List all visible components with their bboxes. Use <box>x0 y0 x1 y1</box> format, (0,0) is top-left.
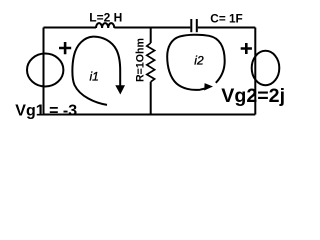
wire left branch <box>43 28 45 115</box>
inductor L1 <box>96 23 114 28</box>
svg-text:R=1Ohm: R=1Ohm <box>135 38 147 82</box>
mesh current i2 arrowhead <box>204 83 213 90</box>
wire bottom segment <box>44 114 256 116</box>
polarity plus of Vg2 <box>241 43 252 54</box>
wire top-right segment <box>198 27 256 29</box>
svg-text:Vg2=2j: Vg2=2j <box>221 85 285 107</box>
wire top-left segment <box>44 27 97 29</box>
capacitor C1 plate left <box>190 19 192 32</box>
voltage source Vg2 circle <box>252 51 280 85</box>
capacitor C1 plate right <box>196 19 198 32</box>
resistor R1 zigzag <box>147 43 155 82</box>
svg-text:i1: i1 <box>90 70 99 84</box>
mesh current i2 loop arc <box>167 35 225 90</box>
mesh current i1 arrowhead <box>115 85 125 94</box>
mesh current i1 loop arc <box>72 37 120 105</box>
svg-text:i2: i2 <box>194 54 204 68</box>
polarity plus of Vg1 <box>59 42 71 54</box>
wire right branch <box>254 28 256 115</box>
svg-text:C= 1F: C= 1F <box>210 11 242 25</box>
wire top-middle segment <box>114 27 190 29</box>
wire middle branch bottom <box>150 82 152 115</box>
wire middle branch top <box>150 28 152 44</box>
svg-text:Vg1 = -3: Vg1 = -3 <box>15 102 77 119</box>
svg-text:L=2 H: L=2 H <box>89 10 122 24</box>
voltage source Vg1 circle <box>27 54 63 87</box>
